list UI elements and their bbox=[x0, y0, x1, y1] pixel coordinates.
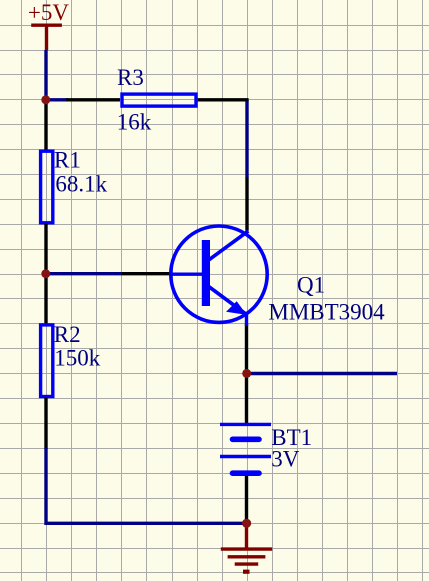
wire +5V to node A bbox=[44, 50, 47, 100]
svg-text:R1: R1 bbox=[54, 148, 81, 173]
svg-text:Q1: Q1 bbox=[297, 272, 325, 297]
wire emitter node to the right bbox=[247, 372, 398, 375]
resistor R1 bbox=[41, 100, 53, 274]
power port +5V bbox=[28, 0, 69, 50]
ground bbox=[221, 523, 272, 572]
label R1 designator bbox=[54, 148, 81, 173]
junction node B bbox=[41, 269, 50, 278]
svg-text:+5V: +5V bbox=[28, 0, 69, 25]
junction node A bbox=[41, 95, 50, 104]
svg-text:R3: R3 bbox=[117, 65, 144, 90]
label R3 designator bbox=[117, 65, 144, 90]
junction node D (ground node) bbox=[242, 519, 251, 528]
resistor R2 bbox=[41, 274, 53, 449]
svg-text:MMBT3904: MMBT3904 bbox=[268, 300, 385, 325]
svg-text:150k: 150k bbox=[54, 346, 101, 371]
transistor Q1 pins (base, collector, emitter) bbox=[122, 177, 247, 374]
wire node B to Q1 base bbox=[46, 272, 122, 275]
label R1 value 68.1k bbox=[55, 172, 107, 197]
label BT1 value 3V bbox=[271, 447, 300, 472]
label R2 value 150k bbox=[54, 346, 101, 371]
resistor R3 bbox=[66, 94, 249, 106]
wire collector drop (vertical at x=247) bbox=[245, 100, 248, 177]
junction node C (emitter node) bbox=[242, 369, 251, 378]
label R3 value 16k bbox=[117, 110, 152, 135]
battery BT1 bbox=[220, 374, 271, 524]
transistor Q1 symbol bbox=[171, 226, 267, 326]
svg-text:R2: R2 bbox=[54, 322, 81, 347]
wire R2 to ground rail (left vertical + bottom horizontal) bbox=[46, 448, 247, 523]
label Q1 comment MMBT3904 bbox=[268, 300, 385, 325]
label BT1 designator bbox=[271, 425, 312, 450]
svg-text:3V: 3V bbox=[271, 447, 300, 472]
svg-text:68.1k: 68.1k bbox=[55, 172, 107, 197]
label Q1 designator bbox=[297, 272, 325, 297]
svg-text:16k: 16k bbox=[117, 110, 152, 135]
label R2 designator bbox=[54, 322, 81, 347]
wire node A to R3 bbox=[46, 98, 68, 101]
